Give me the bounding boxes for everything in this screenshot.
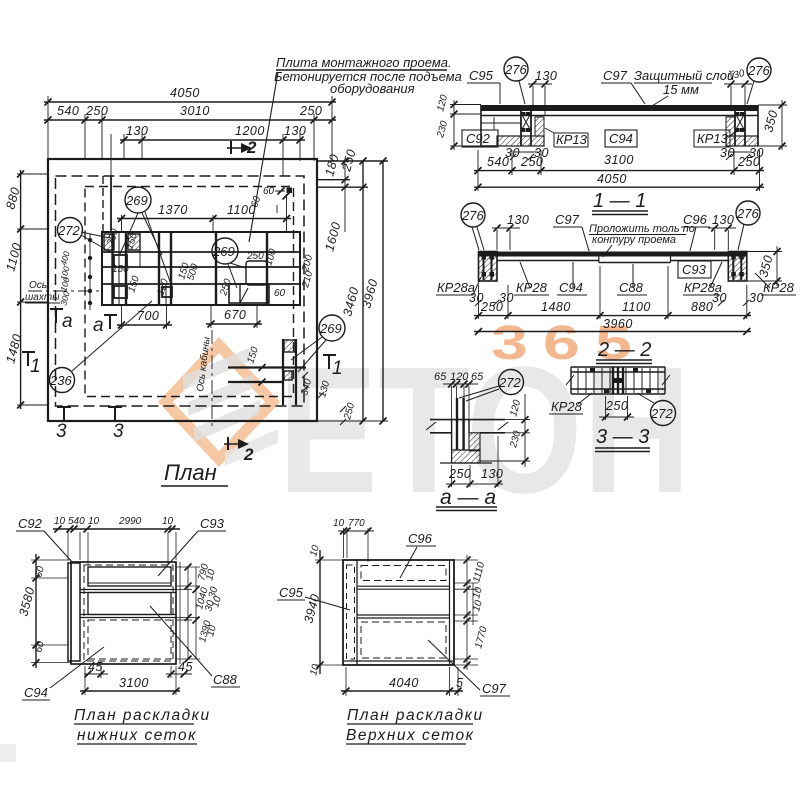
mesh C93 band xyxy=(88,567,171,586)
a-a hatched column xyxy=(469,433,480,451)
svg-text:Защитный слой: Защитный слой xyxy=(634,68,734,83)
svg-text:10: 10 xyxy=(54,516,66,527)
svg-text:План раскладки: План раскладки xyxy=(347,707,484,724)
a-a bottom dims 250 130 xyxy=(448,467,503,481)
doubled bottom edge xyxy=(343,660,454,662)
dashed C96 band xyxy=(361,566,446,581)
30 30 dims left xyxy=(505,146,549,160)
left dim 120 230 xyxy=(450,100,481,150)
svg-text:С97: С97 xyxy=(603,68,628,83)
30 dims 2-2 left xyxy=(469,291,514,305)
middle strip band 2 xyxy=(80,615,176,618)
a-a bottom line xyxy=(440,462,492,464)
dashed C88 outline xyxy=(88,620,171,659)
partition wall line xyxy=(110,176,112,232)
svg-text:а: а xyxy=(93,315,104,336)
mesh rebar dots xyxy=(590,368,651,393)
svg-text:С94: С94 xyxy=(559,280,583,295)
svg-text:3 — 3: 3 — 3 xyxy=(596,426,649,448)
svg-text:2: 2 xyxy=(243,445,254,464)
svg-text:2 — 2: 2 — 2 xyxy=(597,339,651,361)
mesh C92 strip xyxy=(68,563,80,661)
svg-text:С95: С95 xyxy=(469,68,494,83)
note: plita montazhnogo proema xyxy=(274,55,462,96)
svg-text:10: 10 xyxy=(333,518,345,529)
svg-text:3010: 3010 xyxy=(180,104,210,118)
label C94 box xyxy=(605,130,637,147)
svg-text:540: 540 xyxy=(487,155,509,169)
band lines 1 xyxy=(357,586,450,589)
small black square top right xyxy=(287,188,293,194)
svg-text:Ось: Ось xyxy=(29,280,47,291)
cluster slab band outline xyxy=(102,232,300,305)
svg-text:С95: С95 xyxy=(279,585,304,600)
svg-text:Плита монтажного проема.: Плита монтажного проема. xyxy=(276,55,452,70)
plan dashed contour A xyxy=(56,176,305,406)
svg-text:130: 130 xyxy=(535,69,557,83)
slab right edge xyxy=(757,105,759,146)
slab joint verticals xyxy=(599,257,671,263)
leader from note to plan xyxy=(249,72,278,242)
slab underside xyxy=(497,261,728,263)
circle 272 xyxy=(58,218,83,243)
left zone mesh line xyxy=(481,122,521,124)
slab underside line xyxy=(481,115,758,117)
label C92 box xyxy=(462,130,498,147)
section cut 2 bottom xyxy=(227,437,229,450)
svg-text:1100: 1100 xyxy=(622,300,651,314)
extension lines above plan xyxy=(48,96,332,176)
mesh center thick bars xyxy=(613,367,623,394)
svg-text:276: 276 xyxy=(504,62,527,77)
svg-text:540: 540 xyxy=(68,516,85,527)
svg-text:15 мм: 15 мм xyxy=(663,82,699,97)
strip break marks xyxy=(566,375,670,385)
left hatched column xyxy=(535,117,544,136)
svg-text:С93: С93 xyxy=(682,262,707,277)
right dim columns lower-left plan xyxy=(180,562,196,664)
svg-text:250: 250 xyxy=(520,155,543,169)
kabina axis vertical xyxy=(211,330,213,430)
left support column xyxy=(479,252,498,282)
label C93 box xyxy=(678,261,711,278)
svg-text:670: 670 xyxy=(224,308,246,322)
cluster horizontal lines xyxy=(102,252,300,284)
left rib rebar dots xyxy=(522,112,531,132)
dim 180 line xyxy=(317,179,350,181)
svg-text:а — а: а — а xyxy=(440,486,496,509)
title lower-left xyxy=(74,707,211,744)
svg-text:3: 3 xyxy=(56,421,67,442)
svg-text:3960: 3960 xyxy=(603,317,633,331)
svg-text:250: 250 xyxy=(480,300,503,314)
a-a slab break marks xyxy=(426,422,508,430)
section 2-2 slab top flange xyxy=(479,252,747,257)
svg-text:КР13: КР13 xyxy=(556,132,588,147)
right support column xyxy=(728,252,747,282)
circle 272 3-3 xyxy=(651,401,676,426)
right dim verticals xyxy=(362,161,364,421)
note zashchitny sloy xyxy=(634,68,734,97)
svg-text:130: 130 xyxy=(284,124,306,138)
left dim line 880 1100 1480 xyxy=(20,170,22,409)
svg-text:С96: С96 xyxy=(683,212,708,227)
svg-text:236: 236 xyxy=(49,373,72,388)
svg-text:60: 60 xyxy=(274,288,286,299)
watermark orange diamond logo xyxy=(158,337,280,467)
watermark gray stripe 3 xyxy=(194,400,260,442)
a-a right dims 120 230 xyxy=(480,394,530,467)
dashed C95 strip xyxy=(347,565,355,659)
cluster lower right box xyxy=(229,284,269,303)
svg-text:1 — 1: 1 — 1 xyxy=(593,190,646,212)
svg-text:С97: С97 xyxy=(482,681,507,696)
right top dim line xyxy=(317,160,388,162)
left column rebar bars xyxy=(484,253,492,280)
section cut 2 top xyxy=(230,141,232,154)
svg-text:770: 770 xyxy=(348,518,365,529)
left strip line xyxy=(356,560,358,665)
watermark gray fleck bottom left xyxy=(0,744,16,762)
svg-text:272: 272 xyxy=(650,406,673,421)
left rib walls xyxy=(521,111,531,146)
svg-text:3100: 3100 xyxy=(119,676,149,690)
cluster vertical lines xyxy=(113,232,268,305)
svg-text:276: 276 xyxy=(747,63,770,78)
middle strip band 1 xyxy=(80,590,176,593)
dim row 250 1480 1100 880 xyxy=(474,315,751,317)
upper mesh plan outer rect xyxy=(343,560,454,665)
svg-text:130: 130 xyxy=(481,467,503,481)
circle 276 left 2-2 xyxy=(461,203,485,227)
circle 276 left xyxy=(504,57,528,81)
svg-text:1: 1 xyxy=(30,356,41,377)
circle 276 right xyxy=(747,58,771,82)
svg-text:С88: С88 xyxy=(213,672,238,687)
assembly bar horizontal 1 xyxy=(228,366,306,368)
dashed C97 area xyxy=(361,622,446,658)
svg-text:250: 250 xyxy=(605,399,628,413)
svg-text:С94: С94 xyxy=(24,685,48,700)
left hatched footing strip xyxy=(497,136,544,146)
dim 350 right 2-2 xyxy=(747,246,782,286)
node dots column xyxy=(89,234,91,310)
circle 276 right 2-2 xyxy=(736,201,760,225)
svg-text:130: 130 xyxy=(507,213,529,227)
band lines 2 xyxy=(357,615,450,618)
30 dims 2-2 right xyxy=(712,291,764,305)
cluster inset square 3 xyxy=(162,287,172,297)
a-a rebar bars xyxy=(457,398,464,450)
dim 670 xyxy=(206,323,262,325)
svg-text:272: 272 xyxy=(498,375,521,390)
dim row 540 250 3010 250 xyxy=(44,119,336,121)
right hatched column xyxy=(726,117,735,136)
dim 700 xyxy=(117,324,172,326)
cluster rounded box xyxy=(246,261,267,285)
cut mark Ta xyxy=(50,309,63,323)
cluster inset square 1 xyxy=(114,255,127,267)
a-a dims 65 120 65 xyxy=(434,371,484,383)
svg-text:2990: 2990 xyxy=(118,516,142,527)
circle 269 second xyxy=(212,238,238,264)
dashed partition line xyxy=(102,176,104,232)
dim row 4050 xyxy=(44,101,336,103)
circle 236 xyxy=(50,368,75,393)
circle 272 a-a xyxy=(499,370,524,395)
right dim column upper plan xyxy=(467,555,473,670)
cut mark aT xyxy=(104,315,117,329)
plan outer wall rectangle xyxy=(48,159,317,421)
section 1-1 slab top flange xyxy=(481,105,758,111)
left dim 3940 xyxy=(319,550,321,674)
svg-text:1200: 1200 xyxy=(235,124,265,138)
svg-text:130: 130 xyxy=(126,124,148,138)
svg-text:250: 250 xyxy=(737,155,760,169)
svg-text:С93: С93 xyxy=(200,516,225,531)
dim row 130 1200 130 xyxy=(120,139,305,141)
svg-text:шахты: шахты xyxy=(25,292,60,303)
note prolozhit tol xyxy=(589,223,695,246)
svg-text:План: План xyxy=(164,460,217,485)
cut mark 1 left xyxy=(22,352,35,366)
a-a hatched footing xyxy=(452,450,480,463)
svg-text:1480: 1480 xyxy=(541,300,571,314)
label KP13 right xyxy=(694,130,730,147)
svg-text:276: 276 xyxy=(736,206,759,221)
left dim column lower-left plan xyxy=(35,554,37,668)
svg-text:нижних сеток: нижних сеток xyxy=(77,727,197,744)
svg-text:5: 5 xyxy=(456,676,463,690)
svg-text:С92: С92 xyxy=(466,131,491,146)
svg-text:250: 250 xyxy=(299,104,322,118)
svg-text:С96: С96 xyxy=(408,531,433,546)
right rib rebar dots xyxy=(736,112,745,132)
svg-text:С97: С97 xyxy=(555,212,580,227)
svg-text:250: 250 xyxy=(246,251,264,262)
svg-text:а: а xyxy=(62,311,73,332)
axis line shakhty xyxy=(28,290,102,292)
svg-text:КР28: КР28 xyxy=(763,280,795,295)
svg-text:880: 880 xyxy=(691,300,713,314)
svg-text:План раскладки: План раскладки xyxy=(74,707,211,724)
30 30 dims right xyxy=(720,146,764,160)
small 60 arrows top right xyxy=(275,191,285,213)
svg-text:4050: 4050 xyxy=(597,172,627,186)
svg-text:540: 540 xyxy=(57,104,79,118)
doubled right edge xyxy=(449,560,451,665)
svg-text:30: 30 xyxy=(749,291,764,305)
dim row 4050 xyxy=(474,186,764,188)
title bottom center xyxy=(346,707,484,744)
cut mark 3 left xyxy=(57,407,71,421)
dim 1370 1100 xyxy=(117,218,291,220)
svg-text:С94: С94 xyxy=(609,131,633,146)
svg-text:С92: С92 xyxy=(18,516,43,531)
top dim row lower-left plan xyxy=(53,528,180,530)
svg-text:Верхних сеток: Верхних сеток xyxy=(346,727,474,744)
right rib walls xyxy=(735,111,745,146)
small dims inside cluster xyxy=(105,186,315,299)
svg-text:3: 3 xyxy=(113,421,124,442)
svg-text:4040: 4040 xyxy=(389,676,419,690)
svg-text:КР13: КР13 xyxy=(697,131,729,146)
svg-text:оборудования: оборудования xyxy=(330,81,415,96)
svg-text:30: 30 xyxy=(712,291,727,305)
svg-text:контуру проема: контуру проема xyxy=(592,234,676,246)
svg-text:1370: 1370 xyxy=(158,203,188,217)
a-a slab horizontal xyxy=(430,420,505,433)
svg-text:КР28: КР28 xyxy=(551,399,583,414)
svg-text:10: 10 xyxy=(88,516,100,527)
mesh vertical bars xyxy=(578,368,658,393)
left rib cross ties xyxy=(521,113,531,131)
plan dashed contour B xyxy=(85,187,294,397)
cut mark 1 right xyxy=(323,355,336,369)
svg-text:4050: 4050 xyxy=(170,86,200,100)
svg-text:250: 250 xyxy=(85,104,108,118)
cluster hatched cell 1 xyxy=(104,234,114,250)
svg-text:КР28: КР28 xyxy=(516,280,548,295)
svg-text:65: 65 xyxy=(434,371,447,383)
os shakhty label xyxy=(25,280,60,303)
svg-text:3100: 3100 xyxy=(604,153,634,167)
circle 269 first xyxy=(125,187,151,213)
svg-text:С88: С88 xyxy=(619,280,644,295)
right hatched footing strip xyxy=(726,136,758,146)
bottom dims 45 45 3100 xyxy=(84,673,192,675)
svg-text:60: 60 xyxy=(263,186,275,197)
cluster hatched cell 2 xyxy=(128,234,140,250)
svg-text:269: 269 xyxy=(125,193,148,208)
assembly vertical bars xyxy=(283,339,296,405)
circle 269 third xyxy=(319,315,345,341)
svg-text:276: 276 xyxy=(461,208,484,223)
right dim 350 xyxy=(758,100,787,150)
dashed C94 outline xyxy=(84,565,173,661)
dim row 540 250 3100 250 xyxy=(474,170,764,172)
assembly hatched head xyxy=(284,340,295,352)
svg-text:2: 2 xyxy=(246,138,257,157)
svg-text:272: 272 xyxy=(57,223,80,238)
bottom dim 4040 5 xyxy=(341,690,463,692)
assembly small dims xyxy=(245,345,357,421)
top dim 10 770 xyxy=(333,518,365,529)
assembly hatched foot xyxy=(284,371,292,380)
watermark gray stripe 4 xyxy=(225,429,278,466)
lower mesh plan outer rect xyxy=(71,562,176,664)
cut mark 3 right xyxy=(108,407,122,421)
assembly bar horizontal 2 xyxy=(228,381,283,383)
watermark gray stripe 1 xyxy=(183,348,249,390)
svg-text:1: 1 xyxy=(332,358,343,379)
svg-text:269: 269 xyxy=(212,244,235,259)
svg-text:150: 150 xyxy=(112,264,129,275)
section 3-3 mesh strip outline xyxy=(571,367,665,394)
dim 250 tick line xyxy=(317,186,368,188)
a-a rib walls xyxy=(452,420,469,450)
dim row 3960 xyxy=(474,331,751,333)
watermark gray stripe 2 xyxy=(188,374,254,416)
svg-text:45: 45 xyxy=(178,660,193,674)
middle open rect xyxy=(88,593,171,615)
slab left edge xyxy=(481,105,497,146)
cluster inset square 2 xyxy=(114,286,127,298)
svg-text:269: 269 xyxy=(319,321,342,336)
svg-text:10: 10 xyxy=(162,516,174,527)
